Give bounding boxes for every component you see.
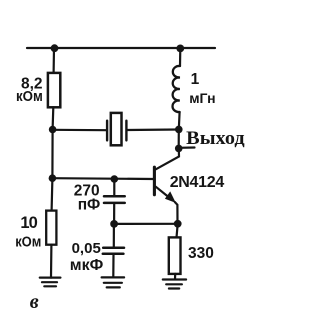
wire: inductor bottom to output node (178, 112, 181, 130)
svg-text:в: в (30, 291, 39, 313)
wire: R2 bottom to ground (50, 245, 53, 278)
wire: base lead from left branch to base bar (52, 177, 153, 180)
svg-text:1: 1 (191, 71, 200, 88)
wire: between the two output-branch nodes (178, 129, 180, 148)
svg-text:мГн: мГн (189, 90, 215, 106)
capacitor C1 bottom stub (113, 204, 115, 224)
wire: junction wire from C1/C2 node to emitter node (114, 223, 178, 225)
svg-text:0,05: 0,05 (72, 240, 101, 257)
wire: top supply rail (27, 47, 215, 49)
svg-text:10: 10 (20, 214, 37, 232)
node: crystal tap on left branch (49, 126, 57, 134)
svg-text:пФ: пФ (78, 197, 101, 214)
resistor R3 330 body (169, 237, 181, 274)
capacitor C1 270 pF top stub (113, 179, 115, 195)
node: output tap (175, 145, 183, 153)
transistor Q1 emitter lead with arrow (156, 187, 178, 224)
capacitor C2 0.05 uF top stub (113, 224, 115, 247)
ground symbol under R3 (163, 280, 186, 289)
node: junction of rail and inductor branch (176, 45, 184, 53)
wire: crystal node to crystal left plate (53, 129, 106, 132)
svg-text:330: 330 (188, 245, 214, 262)
wire: base node down to R2 top (50, 178, 53, 211)
svg-text:кОм: кОм (16, 89, 43, 105)
capacitor C1 270 pF bottom plate (104, 202, 125, 205)
node: junction of base wire and C1 (111, 175, 119, 183)
resistor R2 1.0 kOhm body (46, 211, 56, 245)
node: crystal wire joins collector branch (175, 126, 183, 134)
crystal Y1 left plate (106, 121, 108, 141)
wire: output stub to the right (179, 146, 195, 149)
wire: R1 bottom to crystal node (51, 107, 54, 129)
svg-text:2N4124: 2N4124 (170, 174, 225, 191)
wire: output node down and diagonal to collector (156, 148, 179, 169)
wire: emitter node down to R3 top (177, 224, 178, 238)
ground symbol under C2 (102, 277, 125, 287)
wire: rail to inductor top (179, 48, 182, 66)
node: base wire tap on left branch (49, 174, 57, 182)
crystal Y1 quartz body (111, 113, 122, 145)
ground symbol under R2 (40, 278, 61, 287)
svg-text:мкФ: мкФ (70, 257, 104, 274)
capacitor C2 bottom stub (112, 255, 114, 277)
node: junction of rail and left branch (51, 44, 59, 52)
wire: crystal node down to base node (51, 130, 53, 179)
wire: rail down to R1 top (52, 48, 55, 73)
node: emitter junction (174, 220, 182, 228)
node: junction of C1, C2 and emitter wire (110, 220, 118, 228)
capacitor C1 270 pF top plate (104, 195, 125, 198)
wire: R3 bottom to ground (174, 274, 176, 280)
inductor L1 1 mH coil (173, 66, 180, 112)
capacitor C2 0.05 uF bottom plate (103, 253, 124, 256)
transistor Q1 2N4124 base bar (153, 167, 156, 195)
crystal Y1 right plate (125, 121, 127, 141)
svg-text:кОм: кОм (15, 234, 41, 250)
wire: crystal right plate to output branch (128, 128, 179, 131)
capacitor C2 0.05 uF top plate (103, 247, 124, 250)
svg-text:Выход: Выход (186, 129, 245, 149)
resistor R1 8.2 kOhm body (48, 73, 60, 107)
